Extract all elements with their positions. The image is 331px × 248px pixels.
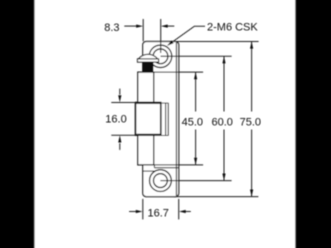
svg-text:2-M6 CSK: 2-M6 CSK [207,22,258,34]
svg-text:16.0: 16.0 [105,114,126,126]
svg-text:8.3: 8.3 [104,22,119,34]
svg-text:45.0: 45.0 [182,116,203,128]
svg-text:75.0: 75.0 [240,116,261,128]
svg-text:16.7: 16.7 [147,208,168,220]
svg-text:60.0: 60.0 [211,116,232,128]
